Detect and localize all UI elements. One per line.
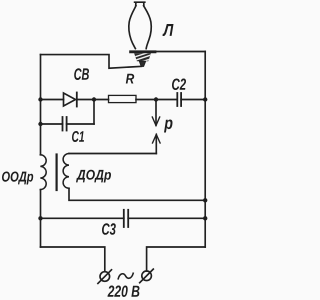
label R: R bbox=[126, 74, 134, 84]
wire: DODr bottom lead to right rail bbox=[69, 188, 205, 200]
wire: right rail bbox=[204, 51, 206, 247]
AC tilde symbol bbox=[118, 273, 133, 279]
wire: resistor to C2 bbox=[136, 99, 177, 101]
terminal left bbox=[100, 272, 110, 282]
inductor DODr winding (right) bbox=[63, 154, 69, 189]
node diode cathode junction bbox=[92, 97, 96, 101]
inductor OODr winding (left, on rail) bbox=[40, 155, 46, 190]
wire: C1 branch vertical from diode node bbox=[93, 100, 95, 125]
node right rail x C3 line bbox=[203, 216, 207, 220]
lamp screw base flange bbox=[131, 50, 155, 53]
wire: C1 branch horizontal left part bbox=[41, 123, 63, 125]
connector p: down arrow bbox=[155, 100, 157, 126]
lamp screw base with hatching bbox=[132, 51, 156, 63]
wire: main horizontal (anode side) bbox=[41, 99, 64, 101]
node left rail x C3 line bbox=[38, 216, 42, 220]
label SV: СВ bbox=[74, 68, 89, 80]
label C1: С1 bbox=[72, 131, 84, 142]
capacitor C2 plates bbox=[176, 93, 178, 106]
wire: top-left wire to lamp base contact bbox=[41, 55, 142, 69]
lamp bottom contact bbox=[139, 61, 145, 66]
node left rail x diode wire bbox=[38, 97, 42, 101]
capacitor C1 plates bbox=[62, 117, 64, 131]
lamp L envelope bbox=[129, 2, 151, 48]
label DODr: ДОДр bbox=[76, 170, 111, 183]
capacitor C3 plates bbox=[123, 210, 125, 227]
label C2: С2 bbox=[172, 79, 186, 91]
wire: C3 line left part bbox=[41, 217, 124, 219]
label p: р bbox=[164, 120, 173, 133]
node main wire x down arrow bbox=[154, 97, 158, 101]
wire: diode to resistor bbox=[77, 99, 109, 101]
terminal right bbox=[142, 271, 152, 281]
choke core bbox=[55, 155, 57, 191]
wire: C1 branch horizontal right part bbox=[67, 123, 94, 125]
wire: lamp shell to right rail bbox=[155, 51, 206, 53]
label OODr: ООДр bbox=[2, 172, 33, 185]
label L: Л bbox=[163, 24, 174, 36]
wire: C3 line right part bbox=[128, 217, 205, 219]
wire: C2 to right rail bbox=[181, 99, 205, 101]
connector p: up arrow with shaft bbox=[153, 135, 161, 144]
node right rail x main wire bbox=[203, 97, 207, 101]
label C3: С3 bbox=[102, 223, 116, 235]
wire: bottom left stub to terminal bbox=[41, 247, 105, 272]
node left rail x C1 wire bbox=[38, 122, 42, 126]
wire: bottom right stub to terminal bbox=[147, 247, 206, 271]
wire: up arrow to DODr top lead bbox=[69, 153, 156, 155]
resistor R body bbox=[109, 95, 137, 102]
node right rail x DODr lead bbox=[203, 198, 207, 202]
label V220: 220 В bbox=[108, 286, 140, 298]
wire: left rail top segment bbox=[40, 55, 42, 155]
wire: left rail bottom segment bbox=[40, 190, 42, 247]
diode SV (selenium rectifier) bbox=[64, 93, 76, 106]
